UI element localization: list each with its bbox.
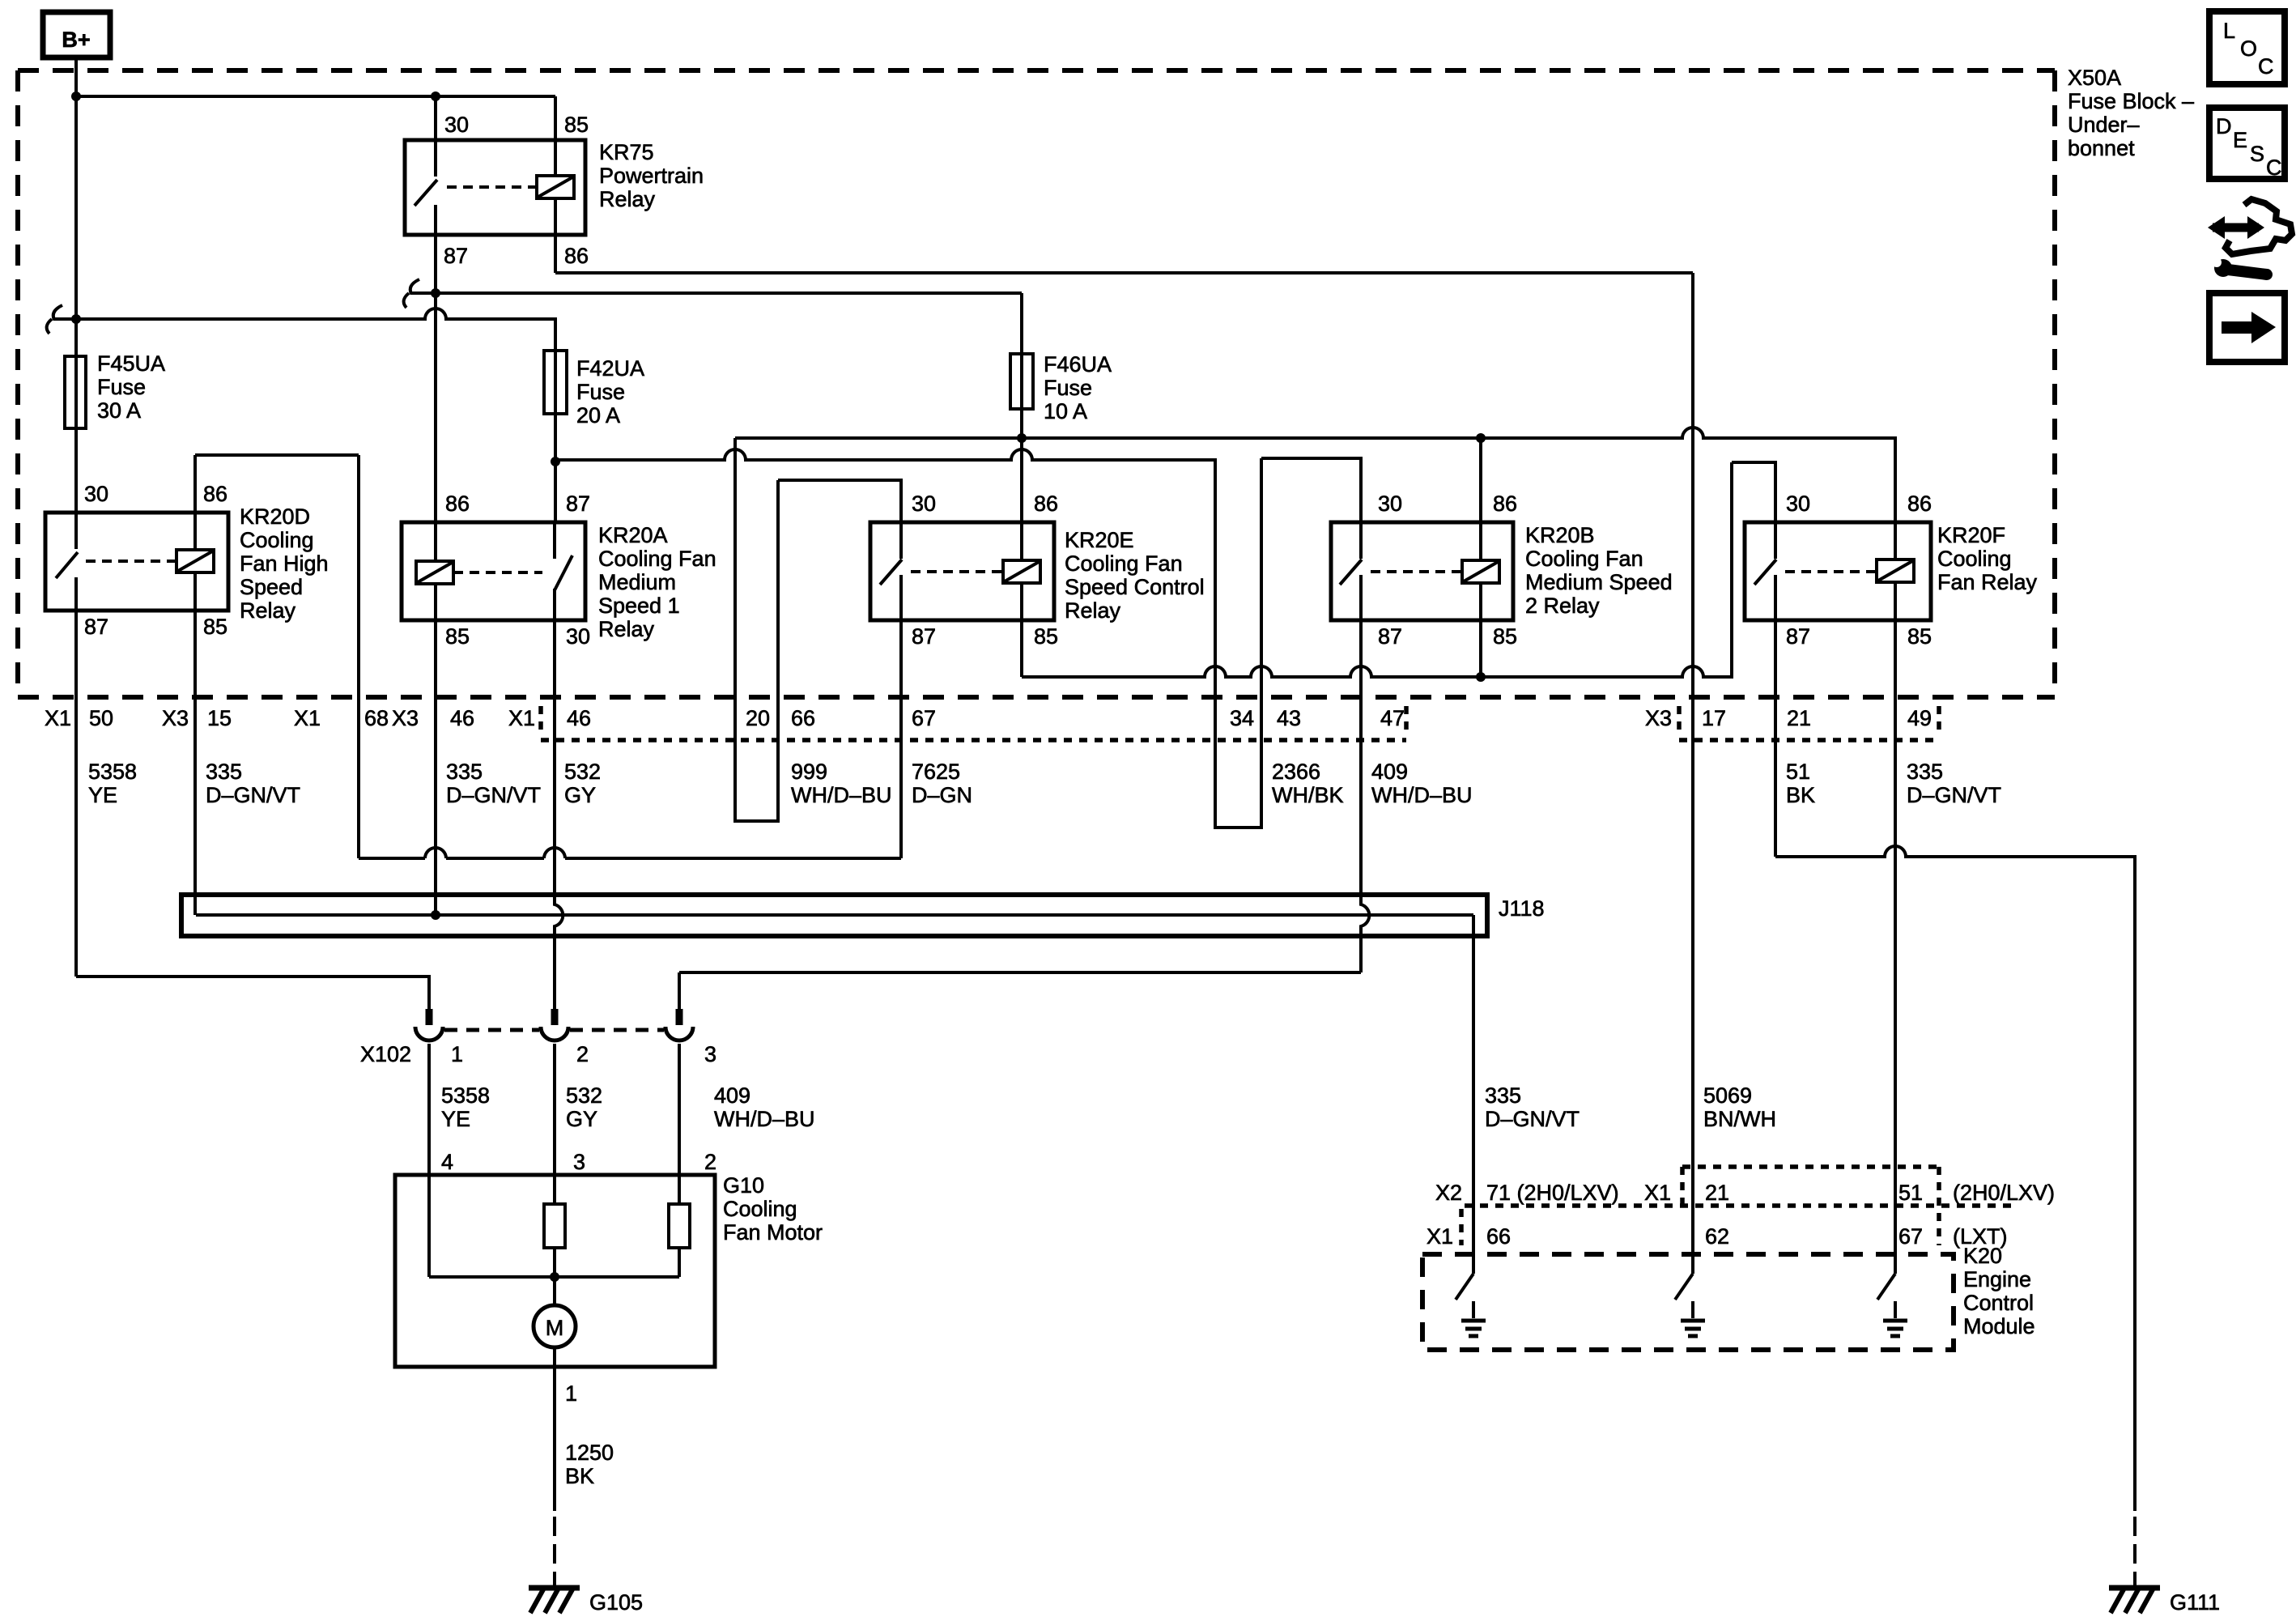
wire KR20B pin 87 to pin 47 and X102-3: [1361, 620, 1369, 972]
node junction B+ / top rail: [71, 91, 81, 101]
svg-text:34: 34: [1230, 706, 1254, 730]
switch ECM driver 2: [1675, 1274, 1693, 1300]
svg-text:30: 30: [566, 624, 590, 649]
DESC icon box: [2209, 108, 2285, 179]
svg-text:D–GN/VT: D–GN/VT: [1485, 1107, 1580, 1131]
svg-text:85: 85: [1493, 624, 1517, 649]
coil KR75: [554, 140, 557, 235]
wire top rail y119 B+ to KR75 pins 30/85: [76, 95, 555, 98]
svg-text:Speed: Speed: [240, 575, 303, 599]
svg-text:532: 532: [564, 760, 601, 784]
svg-text:Fan Relay: Fan Relay: [1937, 570, 2038, 594]
svg-text:Cooling: Cooling: [1937, 547, 2012, 571]
coil KR20F: [1894, 522, 1897, 620]
connector dotted tick left of X3-17: [1677, 706, 1682, 730]
svg-text:85: 85: [1907, 624, 1932, 649]
svg-text:O: O: [2240, 36, 2257, 61]
wire KR20F pin 85 to pin 49 and ECM: [1894, 620, 1897, 1274]
svg-text:X2: X2: [1435, 1181, 1462, 1205]
svg-text:C: C: [2266, 155, 2282, 180]
ECM dotted tick left row1: [1680, 1167, 1685, 1206]
wire KR20E pin30 loop from pin 66: [778, 480, 901, 821]
svg-text:Relay: Relay: [599, 187, 656, 211]
svg-text:30: 30: [84, 482, 108, 506]
svg-text:D–GN/VT: D–GN/VT: [206, 783, 300, 807]
svg-text:X102: X102: [360, 1042, 411, 1066]
svg-text:B+: B+: [62, 28, 90, 52]
svg-text:BN/WH: BN/WH: [1703, 1107, 1776, 1131]
svg-text:KR20A: KR20A: [598, 523, 668, 547]
wire coil rail y541 to KR20F-86 with hop over 5069 wire: [735, 428, 1895, 522]
svg-text:86: 86: [1493, 491, 1517, 516]
wire B+ vertical feed to F45UA and KR20D 30: [74, 57, 78, 513]
wire F42UA to KR20A pin 87: [554, 351, 557, 522]
svg-text:67: 67: [1898, 1224, 1923, 1249]
relay KR20B Cooling Fan Medium Speed 2 Relay: [1331, 491, 1673, 649]
forward arrow icon box: [2209, 293, 2285, 362]
wire 1250 BK dashed segment to ground: [553, 1517, 556, 1585]
svg-text:2: 2: [704, 1150, 716, 1174]
wire rail y394 B+ to F42UA with hop over KR75-87 wire: [53, 309, 555, 351]
wire 51 BK pin 21 to G111 with hop over 335 wire: [1775, 846, 2135, 1511]
svg-text:43: 43: [1277, 706, 1301, 730]
switch KR20D: [56, 513, 78, 611]
svg-text:X1: X1: [294, 706, 321, 730]
wire continuation curl left of KR75-87 junction: [404, 279, 419, 308]
socket cup X102-2: [541, 1027, 568, 1040]
svg-text:X50A: X50A: [2068, 66, 2121, 90]
relay KR20F Cooling Fan Relay: [1745, 491, 2038, 649]
ECM dotted tick left row2: [1459, 1209, 1464, 1245]
svg-text:WH/D–BU: WH/D–BU: [714, 1107, 815, 1131]
wire KR20E pin 87 to pin 67: [899, 620, 903, 858]
svg-text:bonnet: bonnet: [2068, 136, 2135, 160]
svg-text:Fan Motor: Fan Motor: [723, 1220, 823, 1245]
module K20 Engine Control Module dashed box: [1422, 1254, 1954, 1350]
svg-text:86: 86: [445, 491, 470, 516]
node junction F46UA / coil rail: [1017, 433, 1027, 443]
fuse F46UA: [1010, 354, 1033, 409]
svg-text:30 A: 30 A: [97, 398, 141, 423]
svg-text:87: 87: [444, 244, 468, 268]
coil KR20A: [434, 522, 437, 620]
connector dotted tick right of pin 49: [1937, 706, 1941, 730]
svg-text:30: 30: [1378, 491, 1402, 516]
wire KR20D pin 87 to pin X1-50: [74, 611, 78, 977]
svg-text:Relay: Relay: [598, 617, 655, 641]
svg-text:86: 86: [203, 482, 227, 506]
wire continuation curl at left of B+ junction: [47, 305, 62, 334]
switch KR20F: [1754, 522, 1776, 620]
node junction KR75 30 tap: [431, 91, 440, 101]
svg-text:5358: 5358: [441, 1083, 490, 1108]
LOC icon box: [2209, 11, 2285, 84]
wire rail y337 KR75-86 to fuse block pin17: [555, 271, 1693, 274]
svg-text:20: 20: [746, 706, 770, 730]
svg-text:335: 335: [1907, 760, 1943, 784]
connector dotted tick X1-46: [538, 706, 543, 730]
switch ECM driver 1: [1456, 1274, 1473, 1300]
svg-text:Engine: Engine: [1963, 1267, 2031, 1291]
svg-text:D–GN/VT: D–GN/VT: [446, 783, 541, 807]
svg-text:409: 409: [714, 1083, 750, 1108]
node junction KR20B-86 tap: [1476, 433, 1486, 443]
svg-text:86: 86: [1034, 491, 1058, 516]
svg-text:Fuse: Fuse: [576, 380, 625, 404]
svg-text:86: 86: [1907, 491, 1932, 516]
wire KR75 pin30 drop: [434, 96, 437, 140]
svg-text:2: 2: [576, 1042, 589, 1066]
svg-text:3: 3: [704, 1042, 716, 1066]
ground G105: [529, 1588, 580, 1613]
svg-text:Fuse: Fuse: [97, 375, 146, 399]
ground ECM driver 2: [1681, 1301, 1705, 1336]
wire 5069 circuit vertical pin17 to ECM: [1691, 273, 1694, 1274]
node junction KR20B-85 on y836 rail: [1476, 672, 1486, 682]
relay KR20D Cooling Fan High Speed Relay: [45, 482, 329, 639]
ECM dotted row separator: [1465, 1203, 2018, 1208]
node junction KR75-87 branch: [431, 288, 440, 298]
wire KR20E pin 85 to y836 rail: [1020, 620, 1023, 677]
svg-text:5358: 5358: [88, 760, 137, 784]
wire G10 internal bus: [429, 1275, 679, 1279]
relay KR20E Cooling Fan Speed Control Relay: [870, 491, 1205, 649]
svg-text:Powertrain: Powertrain: [599, 164, 704, 188]
socket cup X102-3: [665, 1027, 693, 1040]
svg-text:17: 17: [1702, 706, 1726, 730]
B+ battery feed box: [43, 12, 110, 57]
svg-text:Relay: Relay: [1065, 598, 1121, 623]
svg-text:Medium Speed: Medium Speed: [1525, 570, 1673, 594]
X50A fuse block dashed outline: [18, 70, 2055, 697]
wire pin43 link to KR20B pin 30: [1261, 458, 1361, 828]
svg-text:Fan High: Fan High: [240, 551, 329, 576]
svg-text:49: 49: [1907, 706, 1932, 730]
svg-text:F46UA: F46UA: [1044, 352, 1112, 377]
svg-text:66: 66: [791, 706, 815, 730]
svg-text:87: 87: [912, 624, 936, 649]
svg-text:Cooling Fan: Cooling Fan: [598, 547, 716, 571]
svg-text:Medium: Medium: [598, 570, 676, 594]
svg-text:999: 999: [791, 760, 827, 784]
svg-text:Module: Module: [1963, 1314, 2035, 1338]
switch KR20E: [880, 522, 902, 620]
fuse block bottom connector dotted line segments: [541, 738, 1939, 743]
fuse F42UA: [544, 351, 567, 414]
svg-text:Cooling Fan: Cooling Fan: [1065, 551, 1183, 576]
svg-text:47: 47: [1380, 706, 1405, 730]
car diagnostic icon: [2208, 199, 2292, 277]
svg-text:Fuse Block –: Fuse Block –: [2068, 89, 2194, 113]
svg-text:86: 86: [564, 244, 589, 268]
wire X102-3 to G10 pin 2: [678, 1044, 681, 1277]
svg-text:X3: X3: [162, 706, 189, 730]
component G10 Cooling Fan Motor box: [395, 1175, 715, 1367]
wire KR20F pin 87 to pin 21: [1774, 620, 1777, 857]
svg-text:46: 46: [567, 706, 591, 730]
connector dotted tick right of pin 47: [1404, 706, 1409, 730]
svg-text:GY: GY: [566, 1107, 597, 1131]
switch KR20A: [555, 522, 572, 620]
resistor G10 medium speed: [544, 1204, 565, 1248]
svg-text:C: C: [2258, 54, 2274, 79]
node junction B+ / F42UA rail: [71, 314, 81, 324]
svg-text:87: 87: [566, 491, 590, 516]
wire KR20A pin 85 to pin X3-46 and J118: [434, 620, 437, 915]
svg-text:1: 1: [565, 1381, 577, 1406]
svg-text:51: 51: [1786, 760, 1810, 784]
svg-text:WH/BK: WH/BK: [1272, 783, 1344, 807]
coil KR20E: [1020, 522, 1023, 620]
wire rail y836 KR20E-85/KR20B-85 to KR20F-30 loop with hops: [1022, 462, 1775, 677]
svg-text:4: 4: [441, 1150, 453, 1174]
ECM connector dotted box row 1: [1682, 1164, 1939, 1169]
svg-text:KR20F: KR20F: [1937, 523, 2005, 547]
wire KR20D pin86 loop from pin 68: [195, 455, 359, 858]
svg-text:G10: G10: [723, 1173, 764, 1198]
splice J118 bus outline: [181, 895, 1487, 936]
relay KR20A Cooling Fan Medium Speed 1 Relay: [402, 491, 716, 649]
svg-text:KR20D: KR20D: [240, 504, 310, 529]
svg-text:68: 68: [364, 706, 389, 730]
wire 5358 YE route to X102 pin 1: [76, 977, 429, 1009]
wire KR20A pin 30 to pin X1-46 and X102-2: [555, 620, 563, 1009]
svg-text:1: 1: [451, 1042, 463, 1066]
svg-text:KR75: KR75: [599, 140, 654, 164]
svg-text:G111: G111: [2170, 1590, 2220, 1615]
svg-text:M: M: [546, 1316, 564, 1340]
svg-text:S: S: [2250, 142, 2264, 166]
node junction 335 wire on J118: [431, 910, 440, 920]
hop arcs on 7625 route over 532 and 335 wires: [425, 848, 565, 858]
svg-text:1250: 1250: [565, 1440, 614, 1465]
svg-text:Fuse: Fuse: [1044, 376, 1092, 400]
pin stub X102-1: [426, 1009, 433, 1025]
svg-text:51: 51: [1898, 1181, 1923, 1205]
wire J118 internal splice bus: [196, 913, 1473, 917]
wire X102-1 to G10 pin 4: [427, 1044, 431, 1277]
svg-text:335: 335: [206, 760, 242, 784]
svg-text:D–GN/VT: D–GN/VT: [1907, 783, 2001, 807]
svg-text:30: 30: [1786, 491, 1810, 516]
wire jumper U pins 34-43 (2366 WH/BK): [1215, 740, 1261, 828]
svg-text:Speed 1: Speed 1: [598, 594, 680, 618]
pin stub X102-3: [676, 1009, 683, 1025]
svg-text:30: 30: [444, 113, 469, 137]
wire KR75 pin85 drop: [554, 96, 557, 140]
svg-text:15: 15: [207, 706, 232, 730]
ground ECM driver 3: [1883, 1301, 1907, 1336]
svg-text:Control: Control: [1963, 1291, 2034, 1315]
svg-text:J118: J118: [1499, 896, 1545, 921]
svg-text:87: 87: [1378, 624, 1402, 649]
svg-text:X1: X1: [508, 706, 535, 730]
svg-text:46: 46: [450, 706, 474, 730]
svg-text:WH/D–BU: WH/D–BU: [791, 783, 892, 807]
svg-text:71 (2H0/LXV): 71 (2H0/LXV): [1486, 1181, 1619, 1205]
svg-text:D–GN: D–GN: [912, 783, 972, 807]
svg-text:30: 30: [912, 491, 936, 516]
svg-text:BK: BK: [1786, 783, 1815, 807]
svg-text:85: 85: [1034, 624, 1058, 649]
wire rail y568 KR20A-87 to pin 34 with hops: [555, 449, 1215, 828]
coil KR20B: [1479, 522, 1482, 620]
svg-text:X1: X1: [1426, 1224, 1453, 1249]
svg-text:10 A: 10 A: [1044, 399, 1087, 423]
wire KR75 pin86 to rail y337: [554, 235, 557, 273]
svg-text:F45UA: F45UA: [97, 351, 165, 376]
svg-text:BK: BK: [565, 1464, 594, 1488]
svg-text:G105: G105: [589, 1590, 643, 1615]
svg-text:KR20E: KR20E: [1065, 528, 1134, 552]
ground ECM driver 1: [1461, 1301, 1486, 1336]
svg-text:5069: 5069: [1703, 1083, 1752, 1108]
svg-text:Under–: Under–: [2068, 113, 2140, 137]
wire 7625 D-GN pin 67 to pin 68 route: [359, 620, 901, 858]
node junction F42UA / pin34 rail: [551, 457, 560, 466]
svg-text:85: 85: [203, 615, 227, 639]
svg-text:YE: YE: [441, 1107, 470, 1131]
socket cup X102-1: [415, 1027, 443, 1040]
wire KR75 pin87 down to KR20A pin 86: [434, 235, 437, 522]
svg-text:87: 87: [84, 615, 108, 639]
wire KR20B pin 85 to y836 rail: [1479, 620, 1482, 677]
svg-text:D: D: [2216, 114, 2232, 138]
connector dashed line X102: [444, 1028, 664, 1032]
svg-text:66: 66: [1486, 1224, 1511, 1249]
svg-text:7625: 7625: [912, 760, 960, 784]
wire 335 D-GN/VT J118 to ECM X2-71: [1472, 915, 1475, 1274]
relay KR75 Powertrain Relay: [405, 113, 704, 268]
wire jumper U pins 20-66 (999 WH/D-BU): [735, 740, 778, 821]
svg-text:WH/D–BU: WH/D–BU: [1371, 783, 1473, 807]
svg-text:2366: 2366: [1272, 760, 1320, 784]
svg-text:KR20B: KR20B: [1525, 523, 1595, 547]
svg-text:K20: K20: [1963, 1244, 2002, 1268]
connector X102: [360, 1009, 716, 1066]
svg-text:Cooling Fan: Cooling Fan: [1525, 547, 1643, 571]
wire KR20B pin 86 drop: [1479, 438, 1482, 522]
svg-text:E: E: [2233, 128, 2247, 152]
wire KR20D pin 85 to pin X3-15 and J118: [193, 611, 197, 915]
svg-text:Speed Control: Speed Control: [1065, 575, 1205, 599]
svg-text:X1: X1: [1644, 1181, 1671, 1205]
svg-text:X3: X3: [1645, 706, 1672, 730]
svg-text:F42UA: F42UA: [576, 356, 644, 381]
svg-text:L: L: [2223, 19, 2235, 43]
svg-text:335: 335: [446, 760, 483, 784]
switch KR20B: [1340, 522, 1362, 620]
svg-text:GY: GY: [564, 783, 596, 807]
wire F46UA feed vertical: [1020, 293, 1023, 522]
svg-text:X3: X3: [392, 706, 419, 730]
svg-text:3: 3: [573, 1150, 585, 1174]
svg-text:21: 21: [1705, 1181, 1729, 1205]
node junction motor feed: [550, 1272, 559, 1282]
svg-text:409: 409: [1371, 760, 1408, 784]
svg-text:85: 85: [564, 113, 589, 137]
svg-text:62: 62: [1705, 1224, 1729, 1249]
wire rail y362 KR75-87 to F46UA: [410, 291, 1022, 295]
svg-text:21: 21: [1787, 706, 1811, 730]
switch KR75: [415, 140, 437, 235]
ground G111: [2109, 1588, 2160, 1613]
svg-text:532: 532: [566, 1083, 602, 1108]
svg-text:Relay: Relay: [240, 598, 296, 623]
pin stub X102-2: [551, 1009, 559, 1025]
svg-text:335: 335: [1485, 1083, 1521, 1108]
wire motor to pin 1: [553, 1347, 556, 1511]
resistor G10 low speed: [669, 1204, 690, 1248]
svg-text:87: 87: [1786, 624, 1810, 649]
svg-text:X1: X1: [45, 706, 71, 730]
fuse F45UA: [65, 356, 86, 428]
svg-text:67: 67: [912, 706, 936, 730]
svg-text:Cooling: Cooling: [240, 528, 314, 552]
ECM dotted tick right rows: [1937, 1167, 1941, 1245]
coil KR20D: [193, 513, 197, 611]
svg-text:20 A: 20 A: [576, 403, 620, 428]
switch ECM driver 3: [1877, 1274, 1895, 1300]
wire 409 WH/D-BU route to X102 pin 3: [679, 972, 1361, 1009]
svg-text:50: 50: [89, 706, 113, 730]
svg-text:(2H0/LXV): (2H0/LXV): [1953, 1181, 2055, 1205]
svg-text:Cooling: Cooling: [723, 1197, 797, 1221]
motor M symbol: [534, 1305, 576, 1347]
svg-text:2 Relay: 2 Relay: [1525, 594, 1600, 618]
svg-text:85: 85: [445, 624, 470, 649]
svg-text:YE: YE: [88, 783, 117, 807]
wire 51 BK dashed segment to ground: [2133, 1517, 2137, 1585]
wire fuse block pin20 drop from rail y541: [733, 438, 737, 821]
wire X102-2 to G10 pin 3: [553, 1044, 556, 1305]
